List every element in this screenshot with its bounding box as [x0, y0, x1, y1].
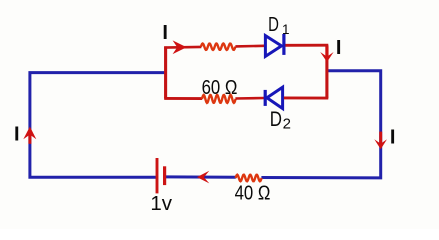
svg-text:I: I [14, 123, 20, 145]
battery negative plate (short bar) [163, 166, 166, 185]
diode D1 triangle [265, 36, 281, 57]
wire: red bottom branch between coil and D2 bar [235, 97, 264, 100]
resistor coil (top branch, unlabeled) [201, 44, 236, 50]
wire: red top branch between coil and D1 [235, 44, 264, 47]
diode D2 triangle [267, 87, 283, 108]
wire: blue bottom-right segment + right vertical + top-right horizontal [261, 71, 380, 178]
wire: blue top-left horizontal + left vertical + bottom-left segment [30, 73, 165, 178]
wire: red top branch left segment (corner to R coil) [164, 46, 201, 49]
wire: red bottom branch left segment [164, 97, 202, 100]
svg-text:40 Ω: 40 Ω [235, 183, 271, 205]
svg-text:D: D [268, 14, 279, 36]
wire: red right vertical of parallel section [325, 45, 328, 98]
current arrow I (top branch, pointing right) [173, 40, 187, 54]
wire: blue bottom mid segment (battery to 40ohm coil) [166, 175, 236, 178]
svg-text:2: 2 [283, 116, 291, 133]
svg-text:D: D [270, 108, 282, 131]
resistor coil R 40 ohm [236, 175, 262, 182]
svg-text:1: 1 [282, 22, 290, 37]
current arrow (left-pointing, on bottom wire) [197, 171, 209, 184]
wire: red bottom branch right segment (D2 to corner) [284, 96, 328, 99]
diode D2 cathode bar [264, 90, 267, 106]
battery positive plate (tall bar) [156, 158, 159, 193]
wire: red parallel-section left vertical [164, 46, 167, 98]
svg-text:I: I [162, 22, 168, 44]
current arrow I (up, on left blue vertical) [28, 131, 31, 144]
wire: red top branch right segment (D1 to corner) [285, 44, 328, 47]
diode D1 cathode bar [282, 34, 285, 55]
svg-text:I: I [336, 37, 342, 59]
svg-text:I: I [390, 127, 396, 149]
resistor coil R 60 ohm [202, 95, 236, 103]
current arrow I (down into right vertical) [320, 52, 333, 62]
svg-text:1v: 1v [150, 192, 172, 215]
current arrow I (down, on right blue vertical) [379, 132, 382, 144]
